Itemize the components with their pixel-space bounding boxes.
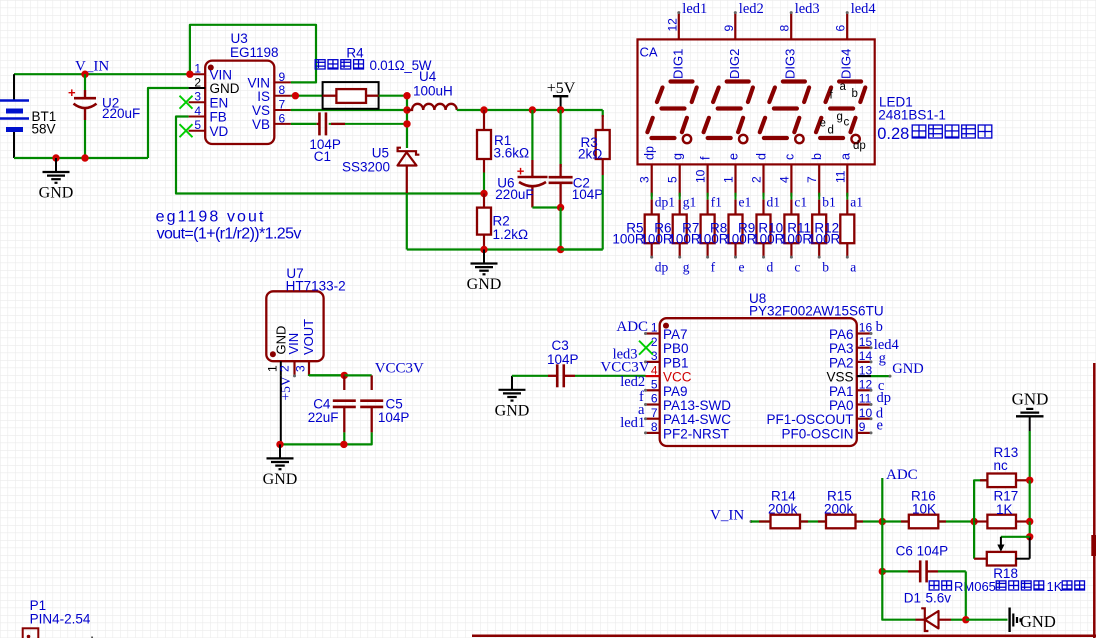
svg-text:9: 9 <box>722 25 736 32</box>
svg-text:e: e <box>739 260 745 275</box>
svg-text:10: 10 <box>694 169 708 183</box>
svg-text:PF1-OSCOUT: PF1-OSCOUT <box>766 412 853 427</box>
svg-text:VS: VS <box>252 103 270 118</box>
svg-text:V_IN: V_IN <box>75 59 109 75</box>
svg-text:VOUT: VOUT <box>301 319 316 355</box>
svg-text:DIG4: DIG4 <box>839 49 854 79</box>
svg-text:200k: 200k <box>768 502 798 517</box>
svg-text:3: 3 <box>651 349 658 363</box>
svg-text:PA13-SWD: PA13-SWD <box>663 398 731 413</box>
wire <box>882 571 915 619</box>
svg-text:5: 5 <box>666 176 680 183</box>
resistor R17 <box>974 489 1030 529</box>
svg-text:GND: GND <box>263 471 298 488</box>
label eg1198 <box>156 209 302 243</box>
wire <box>407 194 603 250</box>
svg-text:+: + <box>68 85 76 100</box>
wire <box>176 117 484 194</box>
svg-text:C3: C3 <box>552 338 569 353</box>
potentiometer R18 <box>974 522 1030 582</box>
svg-text:g1: g1 <box>683 195 697 210</box>
svg-text:1: 1 <box>722 176 736 183</box>
resistor R14 <box>768 489 800 529</box>
svg-text:vout=(1+(r1/r2))*1.25v: vout=(1+(r1/r2))*1.25v <box>157 226 302 243</box>
svg-text:b: b <box>822 260 829 275</box>
svg-text:1K: 1K <box>1047 579 1063 594</box>
svg-text:PA7: PA7 <box>663 327 688 342</box>
svg-text:0.28: 0.28 <box>877 125 909 143</box>
digit DIG4 segments <box>816 82 865 144</box>
svg-text:+5V: +5V <box>547 80 576 97</box>
svg-text:VD: VD <box>210 124 229 139</box>
display LED1 body <box>638 39 875 164</box>
wire <box>881 522 883 572</box>
svg-text:RM065: RM065 <box>954 579 996 594</box>
resistor R13 <box>987 445 1018 487</box>
resistor R15 <box>824 489 856 529</box>
svg-text:1: 1 <box>651 321 658 335</box>
resistor R16 <box>909 489 939 529</box>
node ADC <box>879 467 918 525</box>
svg-text:c: c <box>794 260 800 275</box>
svg-text:a: a <box>840 81 847 93</box>
svg-text:VB: VB <box>252 117 270 132</box>
svg-text:d: d <box>755 153 769 160</box>
power +5V <box>547 80 576 110</box>
node FB <box>480 190 487 197</box>
wire <box>472 634 1096 637</box>
resistor R8 <box>696 200 742 259</box>
no-connect U8 pin2 <box>639 341 653 355</box>
svg-text:GND: GND <box>495 402 530 419</box>
net labels dp1-a1 <box>655 195 863 210</box>
svg-text:HT7133-2: HT7133-2 <box>286 279 346 294</box>
svg-text:6: 6 <box>834 25 848 32</box>
svg-text:bsaaesse: bsaaesse <box>91 634 153 638</box>
wire <box>148 88 189 158</box>
svg-text:e: e <box>877 418 883 434</box>
svg-text:4: 4 <box>194 104 201 118</box>
svg-text:12: 12 <box>859 378 873 392</box>
svg-text:b: b <box>810 153 824 160</box>
wire <box>309 374 344 377</box>
wire <box>457 109 603 111</box>
svg-text:dp: dp <box>877 390 892 406</box>
svg-text:GND: GND <box>1012 389 1049 408</box>
svg-text:led2: led2 <box>739 1 764 17</box>
svg-text:7: 7 <box>279 98 286 112</box>
svg-text:8: 8 <box>651 420 658 434</box>
ground <box>495 376 530 420</box>
svg-text:15: 15 <box>859 335 873 349</box>
svg-text:d: d <box>767 260 774 275</box>
regulator U7 <box>266 266 345 361</box>
svg-text:PIN4-2.54: PIN4-2.54 <box>30 612 91 627</box>
svg-text:e: e <box>820 118 826 130</box>
wire <box>1016 477 1033 484</box>
wire <box>291 109 407 111</box>
svg-text:11: 11 <box>859 392 872 406</box>
svg-text:DIG2: DIG2 <box>727 49 742 79</box>
ground <box>39 154 74 201</box>
resistor R7 <box>668 200 714 259</box>
svg-text:C6 104P: C6 104P <box>896 544 949 559</box>
wire <box>280 376 282 444</box>
resistor R6 <box>640 200 686 259</box>
svg-text:6: 6 <box>279 111 286 125</box>
wire <box>379 95 407 97</box>
svg-text:GND: GND <box>892 361 923 377</box>
digit DIG2 segments <box>704 82 753 144</box>
svg-text:eg1198 vout: eg1198 vout <box>156 209 266 226</box>
no-connect pin 5 <box>180 124 193 137</box>
svg-text:led1: led1 <box>620 415 645 431</box>
svg-text:100R: 100R <box>808 232 841 247</box>
svg-text:7: 7 <box>651 406 658 420</box>
svg-text:e: e <box>727 153 741 160</box>
wire <box>291 92 323 99</box>
svg-text:ADC: ADC <box>886 467 918 483</box>
capacitor U6 <box>495 106 560 207</box>
DIG labels <box>670 49 853 79</box>
svg-text:3: 3 <box>294 365 308 372</box>
svg-text:PA6: PA6 <box>829 327 854 342</box>
svg-text:1: 1 <box>194 62 201 76</box>
svg-text:PB0: PB0 <box>663 341 689 356</box>
svg-text:8: 8 <box>279 83 286 97</box>
wire <box>881 522 883 572</box>
digit DIG3 segments <box>760 82 809 144</box>
svg-text:D1: D1 <box>904 591 921 606</box>
svg-text:13: 13 <box>859 363 873 377</box>
svg-text:b: b <box>852 88 858 100</box>
svg-text:104P: 104P <box>547 352 579 367</box>
svg-text:16: 16 <box>859 321 873 335</box>
svg-text:9: 9 <box>859 420 866 434</box>
resistor R11 <box>780 200 826 259</box>
wire <box>871 375 892 378</box>
svg-text:22uF: 22uF <box>308 410 339 425</box>
LED1 top pins <box>665 11 848 39</box>
net labels led1-led4 <box>682 1 876 17</box>
resistor R4 <box>323 46 379 109</box>
capacitor U2 <box>68 74 140 162</box>
wire <box>1029 431 1031 480</box>
svg-text:CA: CA <box>640 45 658 60</box>
capacitor C2 <box>549 106 604 253</box>
digit DIG1 segments <box>647 82 696 144</box>
svg-text:e1: e1 <box>739 195 752 210</box>
wire <box>751 520 771 522</box>
svg-text:1K: 1K <box>996 502 1013 517</box>
svg-text:PA9: PA9 <box>663 384 688 399</box>
op-amp U3 <box>205 31 278 144</box>
wire <box>280 441 348 448</box>
svg-text:FB: FB <box>210 110 227 125</box>
node SW <box>403 92 410 148</box>
capacitor C5 <box>344 375 410 444</box>
svg-text:PB1: PB1 <box>663 355 689 370</box>
svg-text:VCC3V: VCC3V <box>600 360 649 376</box>
node D1-GND <box>962 616 1007 623</box>
connector P1 <box>23 598 91 638</box>
wire <box>856 520 883 522</box>
svg-text:3: 3 <box>194 90 201 104</box>
svg-text:a1: a1 <box>850 195 863 210</box>
label R4 value <box>315 58 432 73</box>
svg-text:b1: b1 <box>822 195 836 210</box>
resistor R3 <box>561 110 610 250</box>
wire <box>938 520 974 522</box>
label LED1 <box>877 95 992 144</box>
svg-text:5: 5 <box>194 118 201 132</box>
DIG4 segment letters <box>820 81 866 152</box>
svg-text:2: 2 <box>194 76 201 90</box>
svg-text:220uF: 220uF <box>495 187 533 202</box>
resistor R12 <box>808 200 854 259</box>
wire <box>291 123 317 125</box>
svg-text:nc: nc <box>994 458 1009 473</box>
capacitor C4 <box>308 375 356 444</box>
wire <box>1091 363 1096 638</box>
svg-text:PA1: PA1 <box>829 384 854 399</box>
wire <box>965 571 967 619</box>
mcu U8 <box>660 291 884 446</box>
resistor R9 <box>724 200 770 259</box>
svg-text:PF2-NRST: PF2-NRST <box>663 426 729 441</box>
svg-text:9: 9 <box>279 70 286 84</box>
inductor U4 <box>407 69 457 110</box>
svg-text:U4: U4 <box>419 69 437 84</box>
svg-text:led4: led4 <box>851 1 877 17</box>
svg-text:3.6kΩ: 3.6kΩ <box>494 146 530 161</box>
svg-text:4: 4 <box>651 363 658 377</box>
ground <box>1010 608 1056 633</box>
svg-text:VIN: VIN <box>210 67 233 82</box>
ground <box>1012 389 1049 431</box>
U8 right pins <box>766 321 872 442</box>
svg-text:220uF: 220uF <box>102 106 140 121</box>
U8 right net labels <box>874 319 900 434</box>
wire <box>882 520 909 522</box>
svg-text:VCC: VCC <box>663 370 692 385</box>
wire <box>372 374 512 376</box>
svg-text:2481BS1-1: 2481BS1-1 <box>878 108 946 123</box>
svg-text:4: 4 <box>777 176 791 183</box>
svg-text:R4: R4 <box>346 46 364 61</box>
svg-text:5: 5 <box>651 378 658 392</box>
wire <box>1026 480 1033 540</box>
resistor R10 <box>752 200 798 259</box>
label R18 value <box>929 579 1084 594</box>
svg-text:104P: 104P <box>572 187 604 202</box>
svg-text:10: 10 <box>859 406 873 420</box>
svg-text:VIN: VIN <box>286 333 301 355</box>
label partial text <box>91 634 153 638</box>
U8 left net labels <box>613 319 648 431</box>
wire <box>14 157 148 159</box>
svg-text:f1: f1 <box>711 195 722 210</box>
svg-text:1.2kΩ: 1.2kΩ <box>493 227 529 242</box>
svg-text:58V: 58V <box>32 122 56 137</box>
svg-text:DIG3: DIG3 <box>783 49 798 79</box>
svg-text:EG1198: EG1198 <box>230 45 279 60</box>
diode D1 <box>904 591 966 632</box>
svg-text:led1: led1 <box>682 1 707 17</box>
net label V_IN <box>710 508 753 524</box>
svg-text:c: c <box>782 154 796 160</box>
svg-text:g: g <box>879 351 886 367</box>
svg-text:11: 11 <box>833 170 847 183</box>
svg-text:PA0: PA0 <box>829 398 854 413</box>
svg-text:PF0-OSCIN: PF0-OSCIN <box>781 426 853 441</box>
resistor R2 <box>477 194 528 250</box>
svg-text:DIG1: DIG1 <box>670 49 685 79</box>
capacitor C1 <box>309 112 407 164</box>
node V_IN <box>75 59 109 78</box>
svg-text:a: a <box>838 153 852 160</box>
svg-text:c1: c1 <box>794 195 807 210</box>
U7 pins <box>266 361 310 377</box>
svg-text:IS: IS <box>257 89 270 104</box>
ground <box>467 246 502 293</box>
battery BT1 <box>0 74 56 158</box>
svg-text:3: 3 <box>638 176 652 183</box>
svg-text:PY32F002AW15S6TU: PY32F002AW15S6TU <box>749 304 884 319</box>
svg-text:2: 2 <box>278 365 292 372</box>
ground <box>263 441 298 488</box>
svg-text:a: a <box>850 260 856 275</box>
svg-text:2: 2 <box>750 176 764 183</box>
svg-text:PA14-SWC: PA14-SWC <box>663 412 731 427</box>
svg-text:104P: 104P <box>378 410 410 425</box>
svg-text:200k: 200k <box>824 502 854 517</box>
svg-text:8: 8 <box>778 25 792 32</box>
svg-text:VSS: VSS <box>826 370 853 385</box>
wire <box>800 520 826 522</box>
svg-text:VCC3V: VCC3V <box>375 361 424 377</box>
svg-text:PA2: PA2 <box>829 355 854 370</box>
node R16-R17 <box>970 518 977 525</box>
svg-text:g: g <box>837 111 843 123</box>
svg-text:f: f <box>711 260 716 275</box>
svg-text:led2: led2 <box>620 374 645 390</box>
svg-text:6: 6 <box>651 392 658 406</box>
svg-text:2kΩ: 2kΩ <box>578 147 602 162</box>
U8 left pins <box>644 321 731 442</box>
svg-text:12: 12 <box>665 18 679 32</box>
svg-text:14: 14 <box>859 349 873 363</box>
svg-text:f: f <box>699 156 713 160</box>
net label VCC3V <box>600 360 649 376</box>
U3 right pins <box>247 70 290 132</box>
net label +5V <box>278 376 293 400</box>
svg-text:b: b <box>876 319 883 335</box>
svg-text:V_IN: V_IN <box>710 508 744 524</box>
svg-text:dp: dp <box>853 140 866 152</box>
resistor R5 <box>612 200 658 259</box>
svg-text:GND: GND <box>210 81 240 96</box>
svg-text:dp: dp <box>643 146 657 160</box>
diode U5 <box>342 146 419 194</box>
svg-text:5.6v: 5.6v <box>926 591 952 606</box>
svg-text:7: 7 <box>805 176 819 183</box>
wire <box>186 25 316 83</box>
svg-text:led3: led3 <box>795 1 820 17</box>
svg-text:PA3: PA3 <box>829 341 854 356</box>
capacitor C3 <box>512 338 646 387</box>
svg-text:U5: U5 <box>372 146 389 161</box>
svg-text:+: + <box>517 164 525 179</box>
net labels dp-a <box>655 260 857 275</box>
svg-text:GND: GND <box>1020 612 1056 631</box>
U3 left pins <box>189 62 240 139</box>
capacitor C6 <box>879 544 966 583</box>
svg-text:g: g <box>671 153 685 160</box>
net label GND <box>892 361 923 377</box>
svg-text:100uH: 100uH <box>413 84 453 99</box>
svg-text:SS3200: SS3200 <box>342 160 390 175</box>
node VCC3V <box>341 361 424 380</box>
svg-text:dp1: dp1 <box>655 195 675 210</box>
svg-text:dp: dp <box>655 260 669 275</box>
svg-text:ADC: ADC <box>616 319 648 335</box>
svg-text:EN: EN <box>210 95 229 110</box>
svg-text:10K: 10K <box>912 502 936 517</box>
resistor R1 <box>477 106 529 193</box>
svg-text:c: c <box>844 117 850 129</box>
svg-text:d: d <box>828 125 834 137</box>
svg-text:GND: GND <box>467 276 502 293</box>
svg-text:C1: C1 <box>314 149 331 164</box>
svg-text:g: g <box>683 260 690 275</box>
no-connect pin 3 <box>180 96 193 109</box>
wire <box>974 480 987 521</box>
svg-text:GND: GND <box>39 185 74 202</box>
wire <box>14 73 190 75</box>
svg-text:d1: d1 <box>767 195 781 210</box>
svg-text:R18: R18 <box>993 566 1018 581</box>
svg-text:U3: U3 <box>231 31 248 46</box>
LED1 bottom pins <box>638 146 853 200</box>
